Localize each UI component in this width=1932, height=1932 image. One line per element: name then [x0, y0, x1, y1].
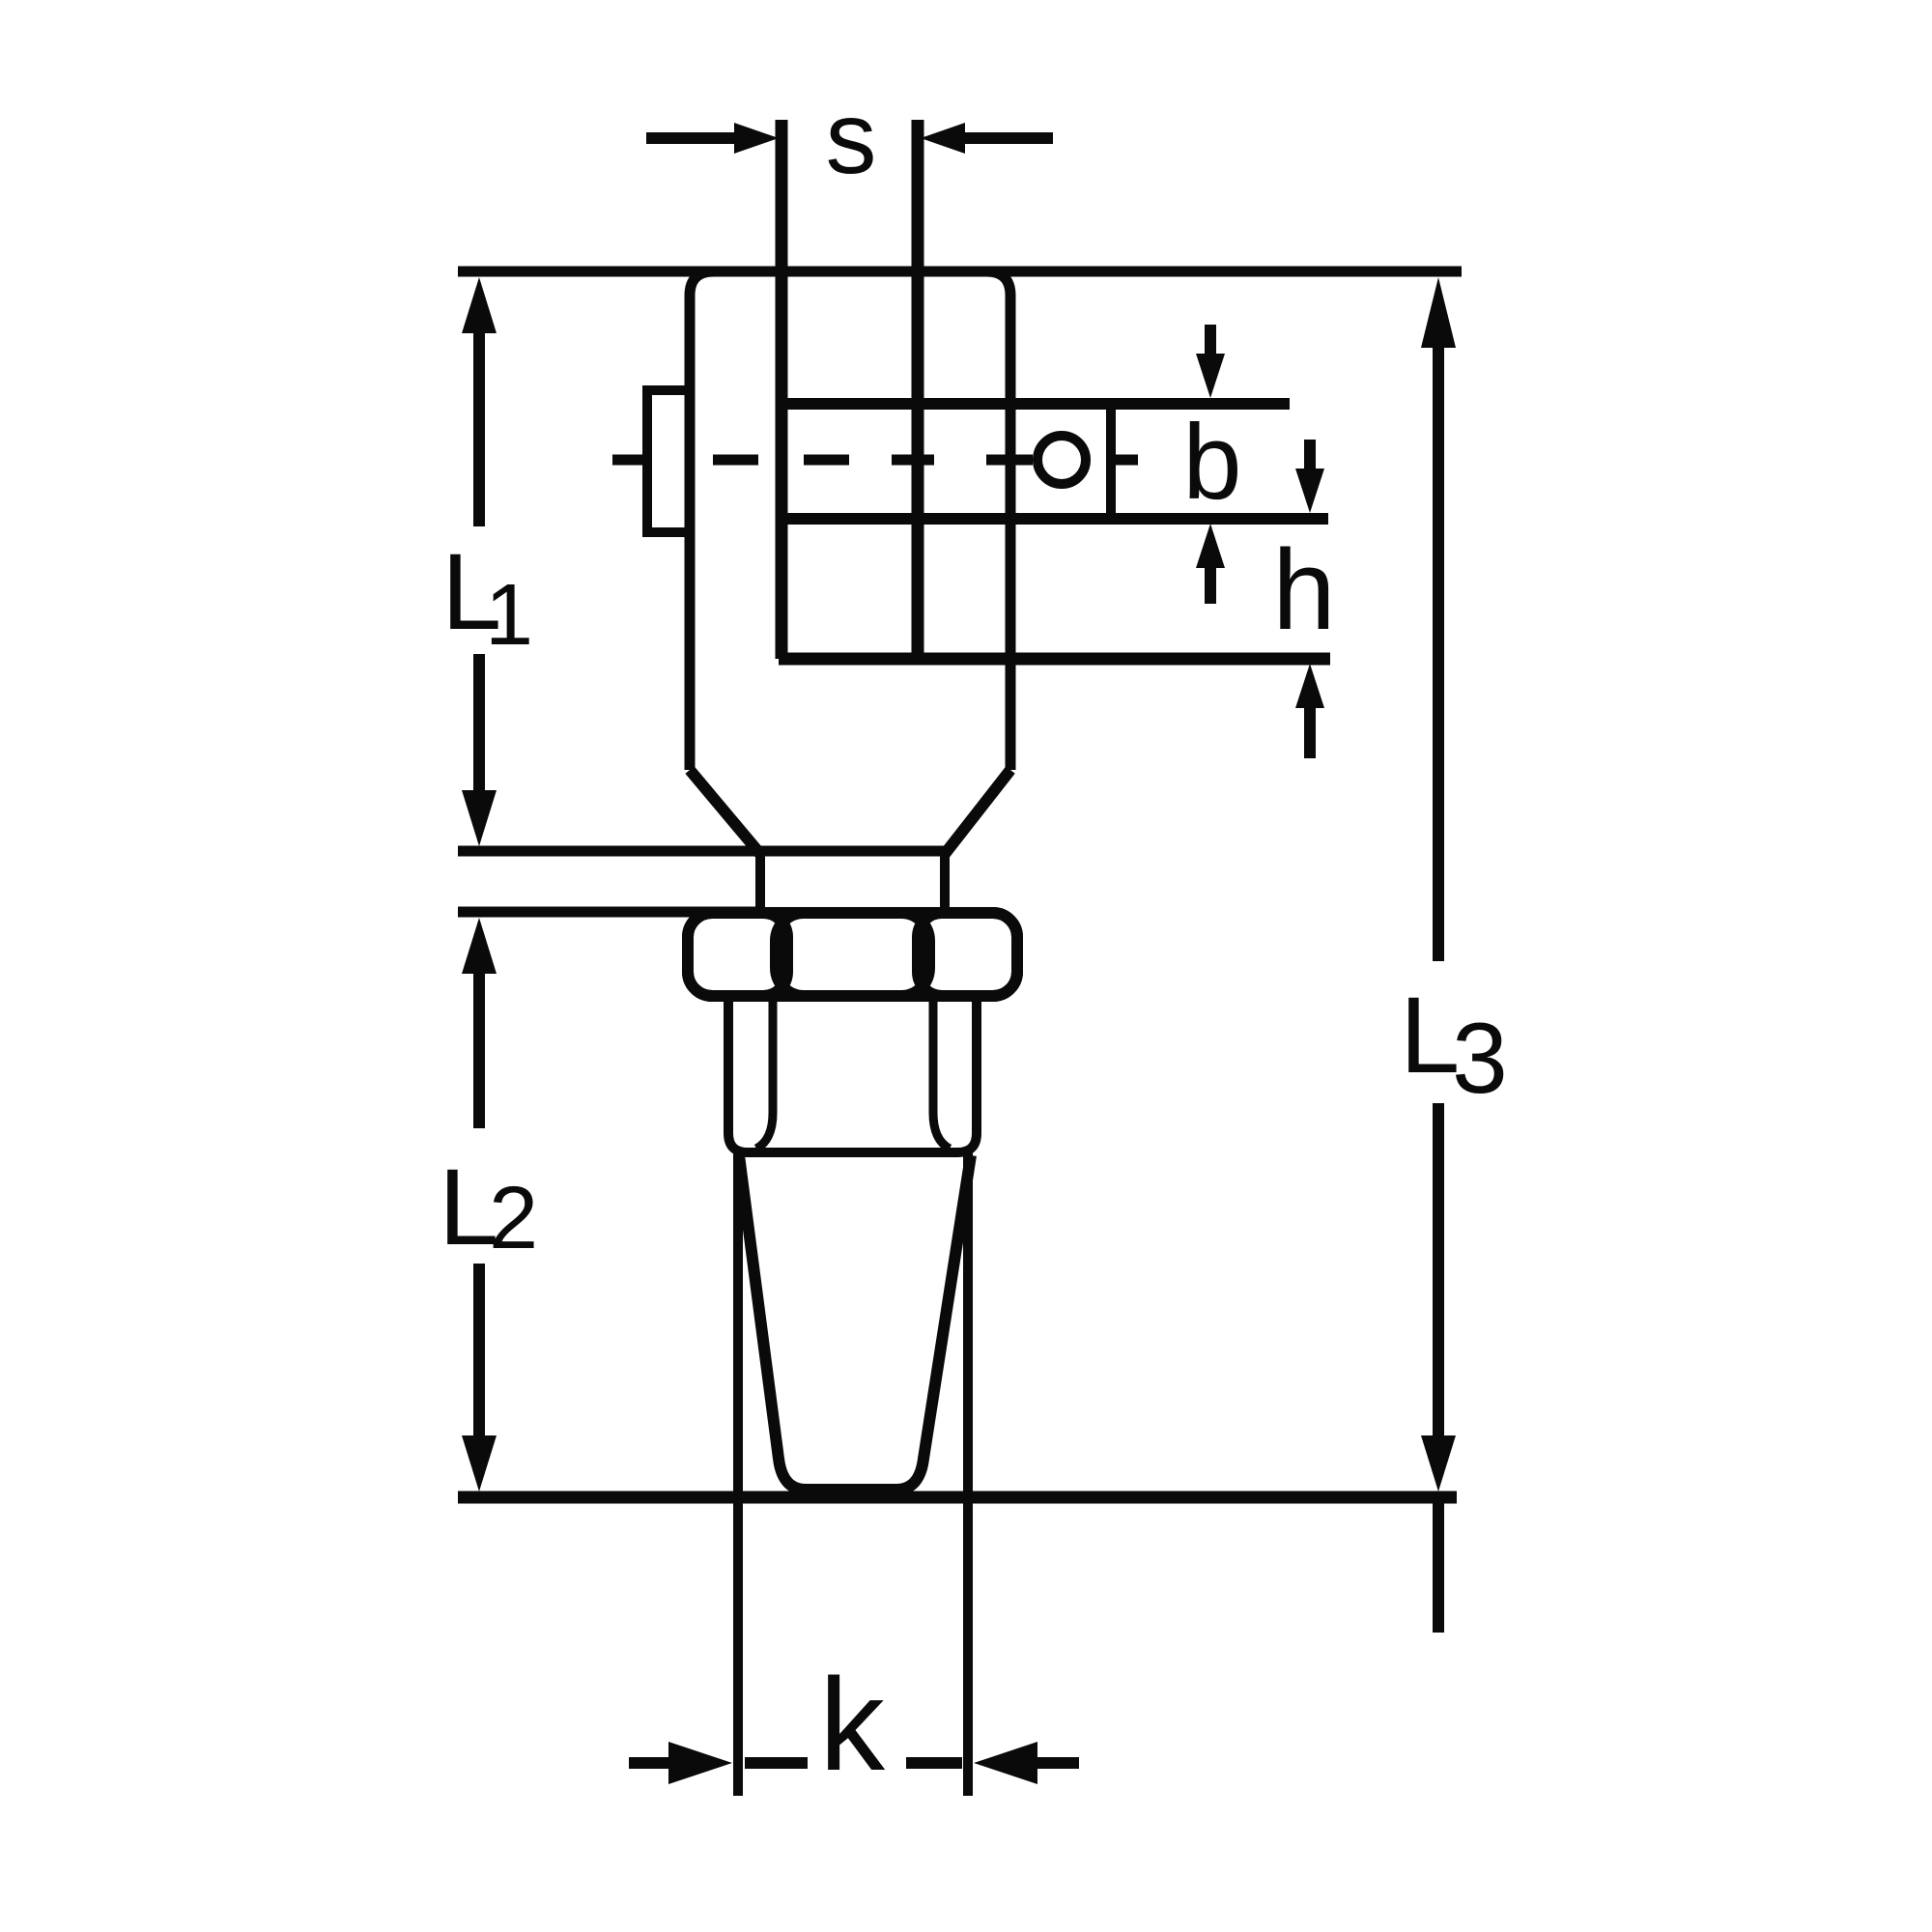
svg-text:1: 1 — [485, 567, 533, 664]
fork taper right edge — [945, 770, 1010, 854]
dimension b lower arrow — [1196, 524, 1225, 604]
dimension L1 line lower part — [462, 654, 497, 846]
dimension L3 line lower part with tail — [1421, 1103, 1456, 1633]
dimension h upper arrow — [1295, 440, 1324, 513]
cone left edge — [739, 1155, 971, 1490]
dimension k right arrow — [906, 1742, 1079, 1784]
fork body outline with rounded shoulders — [690, 271, 1010, 770]
clevis pin head — [647, 390, 690, 532]
hex nut outline — [688, 913, 1017, 996]
svg-text:3: 3 — [1452, 1003, 1508, 1115]
svg-text:2: 2 — [489, 1169, 538, 1267]
dimension L2 line lower part — [462, 1264, 497, 1492]
neck right edge — [940, 854, 950, 916]
dimension L3 line upper part — [1421, 277, 1456, 961]
hex nut left facet — [688, 913, 787, 996]
hex nut centre facet — [776, 913, 929, 996]
extension line: end of fork taper (L1 bottom / neck datum) — [458, 846, 949, 857]
clevis pin top edge / b extension line — [781, 398, 1290, 410]
extension line: top of fork (L1/L3 datum) — [458, 267, 1462, 277]
dimension s right arrow — [921, 123, 1053, 154]
svg-text:k: k — [819, 1651, 886, 1798]
swage body outline — [728, 996, 977, 1152]
clevis pin end face — [1106, 404, 1116, 519]
dimension s left arrow — [646, 123, 779, 154]
hex nut right facet — [918, 913, 1017, 996]
dimension b upper arrow — [1196, 325, 1225, 398]
svg-text:L: L — [1400, 975, 1460, 1095]
dimension L1 line upper part — [462, 277, 497, 526]
svg-text:s: s — [826, 81, 877, 195]
extension line: top of nut (L2 top datum) — [458, 907, 763, 918]
clevis pin bottom edge / b-h extension line — [781, 513, 1328, 525]
fork taper left edge — [690, 770, 760, 854]
swage body right chamfer line — [933, 996, 950, 1149]
dimension L2 line upper part — [462, 918, 497, 1128]
dimension k left arrow — [629, 1742, 808, 1784]
swage body left chamfer line — [756, 996, 773, 1149]
svg-text:b: b — [1182, 403, 1241, 522]
centreline through pin — [612, 455, 1138, 466]
fork slot bottom / h extension line — [779, 653, 1330, 666]
neck left edge — [755, 854, 765, 916]
extension line: bottom of terminal (L2/L3 bottom datum) — [458, 1492, 1457, 1504]
fork slot right wall / s extension line — [912, 120, 924, 659]
dimension h lower arrow — [1295, 664, 1324, 758]
svg-text:h: h — [1272, 526, 1336, 654]
cotter pin hole — [1037, 436, 1086, 484]
fork slot left wall / s extension line — [776, 120, 788, 659]
k extension line right — [963, 1152, 973, 1796]
k extension line left — [733, 1152, 743, 1796]
